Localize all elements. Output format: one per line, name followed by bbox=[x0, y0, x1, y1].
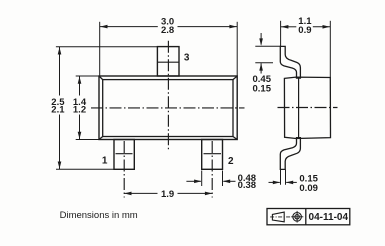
projection symbol centerline bbox=[270, 216, 290, 218]
dim 0.15/0.09 extension right bbox=[285, 169, 287, 184]
dim 0.45/0.15 lower arrow shaft bbox=[260, 63, 262, 73]
arrow 0.15 left (foot) bbox=[273, 181, 280, 185]
svg-text:2.8: 2.8 bbox=[161, 25, 174, 36]
pin 1 bbox=[114, 140, 134, 170]
dim 0.48/0.38 right arrow shaft bbox=[223, 180, 235, 182]
dim 1.4/1.2 extension bottom bbox=[76, 139, 99, 141]
svg-text:0.38: 0.38 bbox=[238, 180, 257, 191]
dim 1.1/0.9 line left segment bbox=[281, 26, 297, 28]
body chamfer top-left bbox=[99, 76, 103, 80]
svg-text:0.09: 0.09 bbox=[299, 183, 318, 194]
svg-text:1.2: 1.2 bbox=[73, 104, 86, 115]
dim 0.45/0.15 extension upper bbox=[255, 45, 280, 47]
side lower lead bbox=[280, 138, 300, 170]
arrow 2.5 bottom bbox=[58, 162, 62, 169]
arrow 0.48 right bbox=[223, 180, 230, 184]
svg-text:1: 1 bbox=[102, 156, 108, 167]
body outline front view outer bbox=[99, 76, 237, 140]
dim 2.5/2.1 extension top bbox=[56, 46, 157, 48]
projection symbol circle outer bbox=[293, 213, 302, 222]
dim 1.4/1.2 line top segment bbox=[79, 76, 81, 96]
dim 2.5/2.1 extension bottom bbox=[56, 168, 114, 170]
dim 3.0/2.8 extension left bbox=[99, 22, 101, 76]
arrow 3.0 right bbox=[229, 25, 236, 29]
svg-text:3: 3 bbox=[184, 52, 190, 63]
side body centerline bbox=[278, 107, 338, 109]
projection symbol crosshair vertical bbox=[296, 211, 298, 223]
arrow 1.4 bottom bbox=[78, 132, 82, 139]
dim 0.15/0.09 right arrow shaft bbox=[286, 181, 297, 183]
centerline horizontal main bbox=[91, 107, 245, 109]
dim 0.45/0.15 extension lower bbox=[255, 62, 273, 64]
body chamfer bottom-right bbox=[233, 137, 237, 140]
dim 1.4/1.2 line bottom segment bbox=[79, 115, 81, 140]
arrow 1.9 right bbox=[205, 192, 212, 196]
arrow 0.09 right (foot) bbox=[286, 181, 293, 185]
dim 3.0/2.8 line right segment bbox=[178, 26, 238, 28]
svg-text:04-11-04: 04-11-04 bbox=[309, 212, 349, 223]
centerline vertical main bbox=[167, 41, 169, 151]
projection symbol circle inner bbox=[295, 215, 299, 219]
svg-text:0.15: 0.15 bbox=[253, 83, 272, 94]
dim 2.5/2.1 line bottom segment bbox=[59, 115, 61, 170]
arrow 2.5 top bbox=[58, 47, 62, 54]
dim 1.4/1.2 extension top bbox=[76, 75, 99, 77]
dim 0.48/0.38 extension left bbox=[201, 171, 203, 187]
arrow 1.4 top bbox=[78, 77, 82, 84]
dim 0.15/0.09 extension left bbox=[280, 169, 282, 184]
body outline front view inner bbox=[103, 80, 233, 137]
svg-text:Dimensions in mm: Dimensions in mm bbox=[60, 210, 138, 221]
arrow 0.45 down bbox=[259, 38, 263, 45]
dim 1.1/0.9 line right segment bbox=[313, 26, 331, 28]
pin 2 centerline bbox=[211, 141, 213, 198]
arrow 1.9 left bbox=[124, 192, 131, 196]
dim 3.0/2.8 line left segment bbox=[100, 26, 158, 28]
svg-text:2: 2 bbox=[228, 156, 234, 167]
arrow 0.48 left bbox=[194, 180, 201, 184]
body chamfer bottom-left bbox=[99, 137, 103, 140]
dim 0.45/0.15 upper arrow shaft bbox=[260, 33, 262, 45]
pin 3 tab bbox=[157, 47, 179, 76]
arrow 0.15 up (side) bbox=[259, 63, 263, 70]
dim 3.0/2.8 extension right bbox=[236, 22, 238, 76]
arrow 1.1 right bbox=[323, 25, 330, 29]
dim 2.5/2.1 line top segment bbox=[59, 47, 61, 96]
dim 0.48/0.38 extension right bbox=[222, 171, 224, 187]
pin 2 bbox=[202, 140, 223, 170]
body chamfer top-right bbox=[233, 76, 237, 80]
dim 1.1/0.9 extension right bbox=[329, 21, 331, 78]
title block divider bbox=[305, 209, 307, 225]
dim 1.9 line right segment bbox=[178, 192, 213, 194]
dim 1.9 line left segment bbox=[124, 192, 157, 194]
svg-text:2.1: 2.1 bbox=[51, 104, 65, 115]
lead line through side body bbox=[298, 77, 300, 138]
title block box bbox=[267, 209, 350, 225]
arrow 3.0 left bbox=[100, 25, 107, 29]
pin 1 crossbar bbox=[116, 153, 133, 155]
side body outline bbox=[284, 77, 330, 138]
dim 0.48/0.38 left arrow shaft bbox=[186, 180, 201, 182]
svg-text:0.9: 0.9 bbox=[298, 25, 311, 36]
pin 2 crossbar bbox=[204, 153, 222, 155]
arrow 1.1 left bbox=[281, 25, 288, 29]
dim 1.1/0.9 extension left bbox=[280, 21, 282, 46]
pin 3 crossbar bbox=[158, 61, 180, 63]
projection symbol crosshair horizontal bbox=[291, 216, 303, 218]
svg-text:1.9: 1.9 bbox=[161, 189, 174, 200]
side upper lead bbox=[280, 46, 300, 78]
dim 0.15/0.09 left arrow shaft bbox=[269, 181, 280, 183]
projection symbol cone bbox=[272, 212, 284, 222]
pin 1 centerline bbox=[123, 141, 125, 198]
